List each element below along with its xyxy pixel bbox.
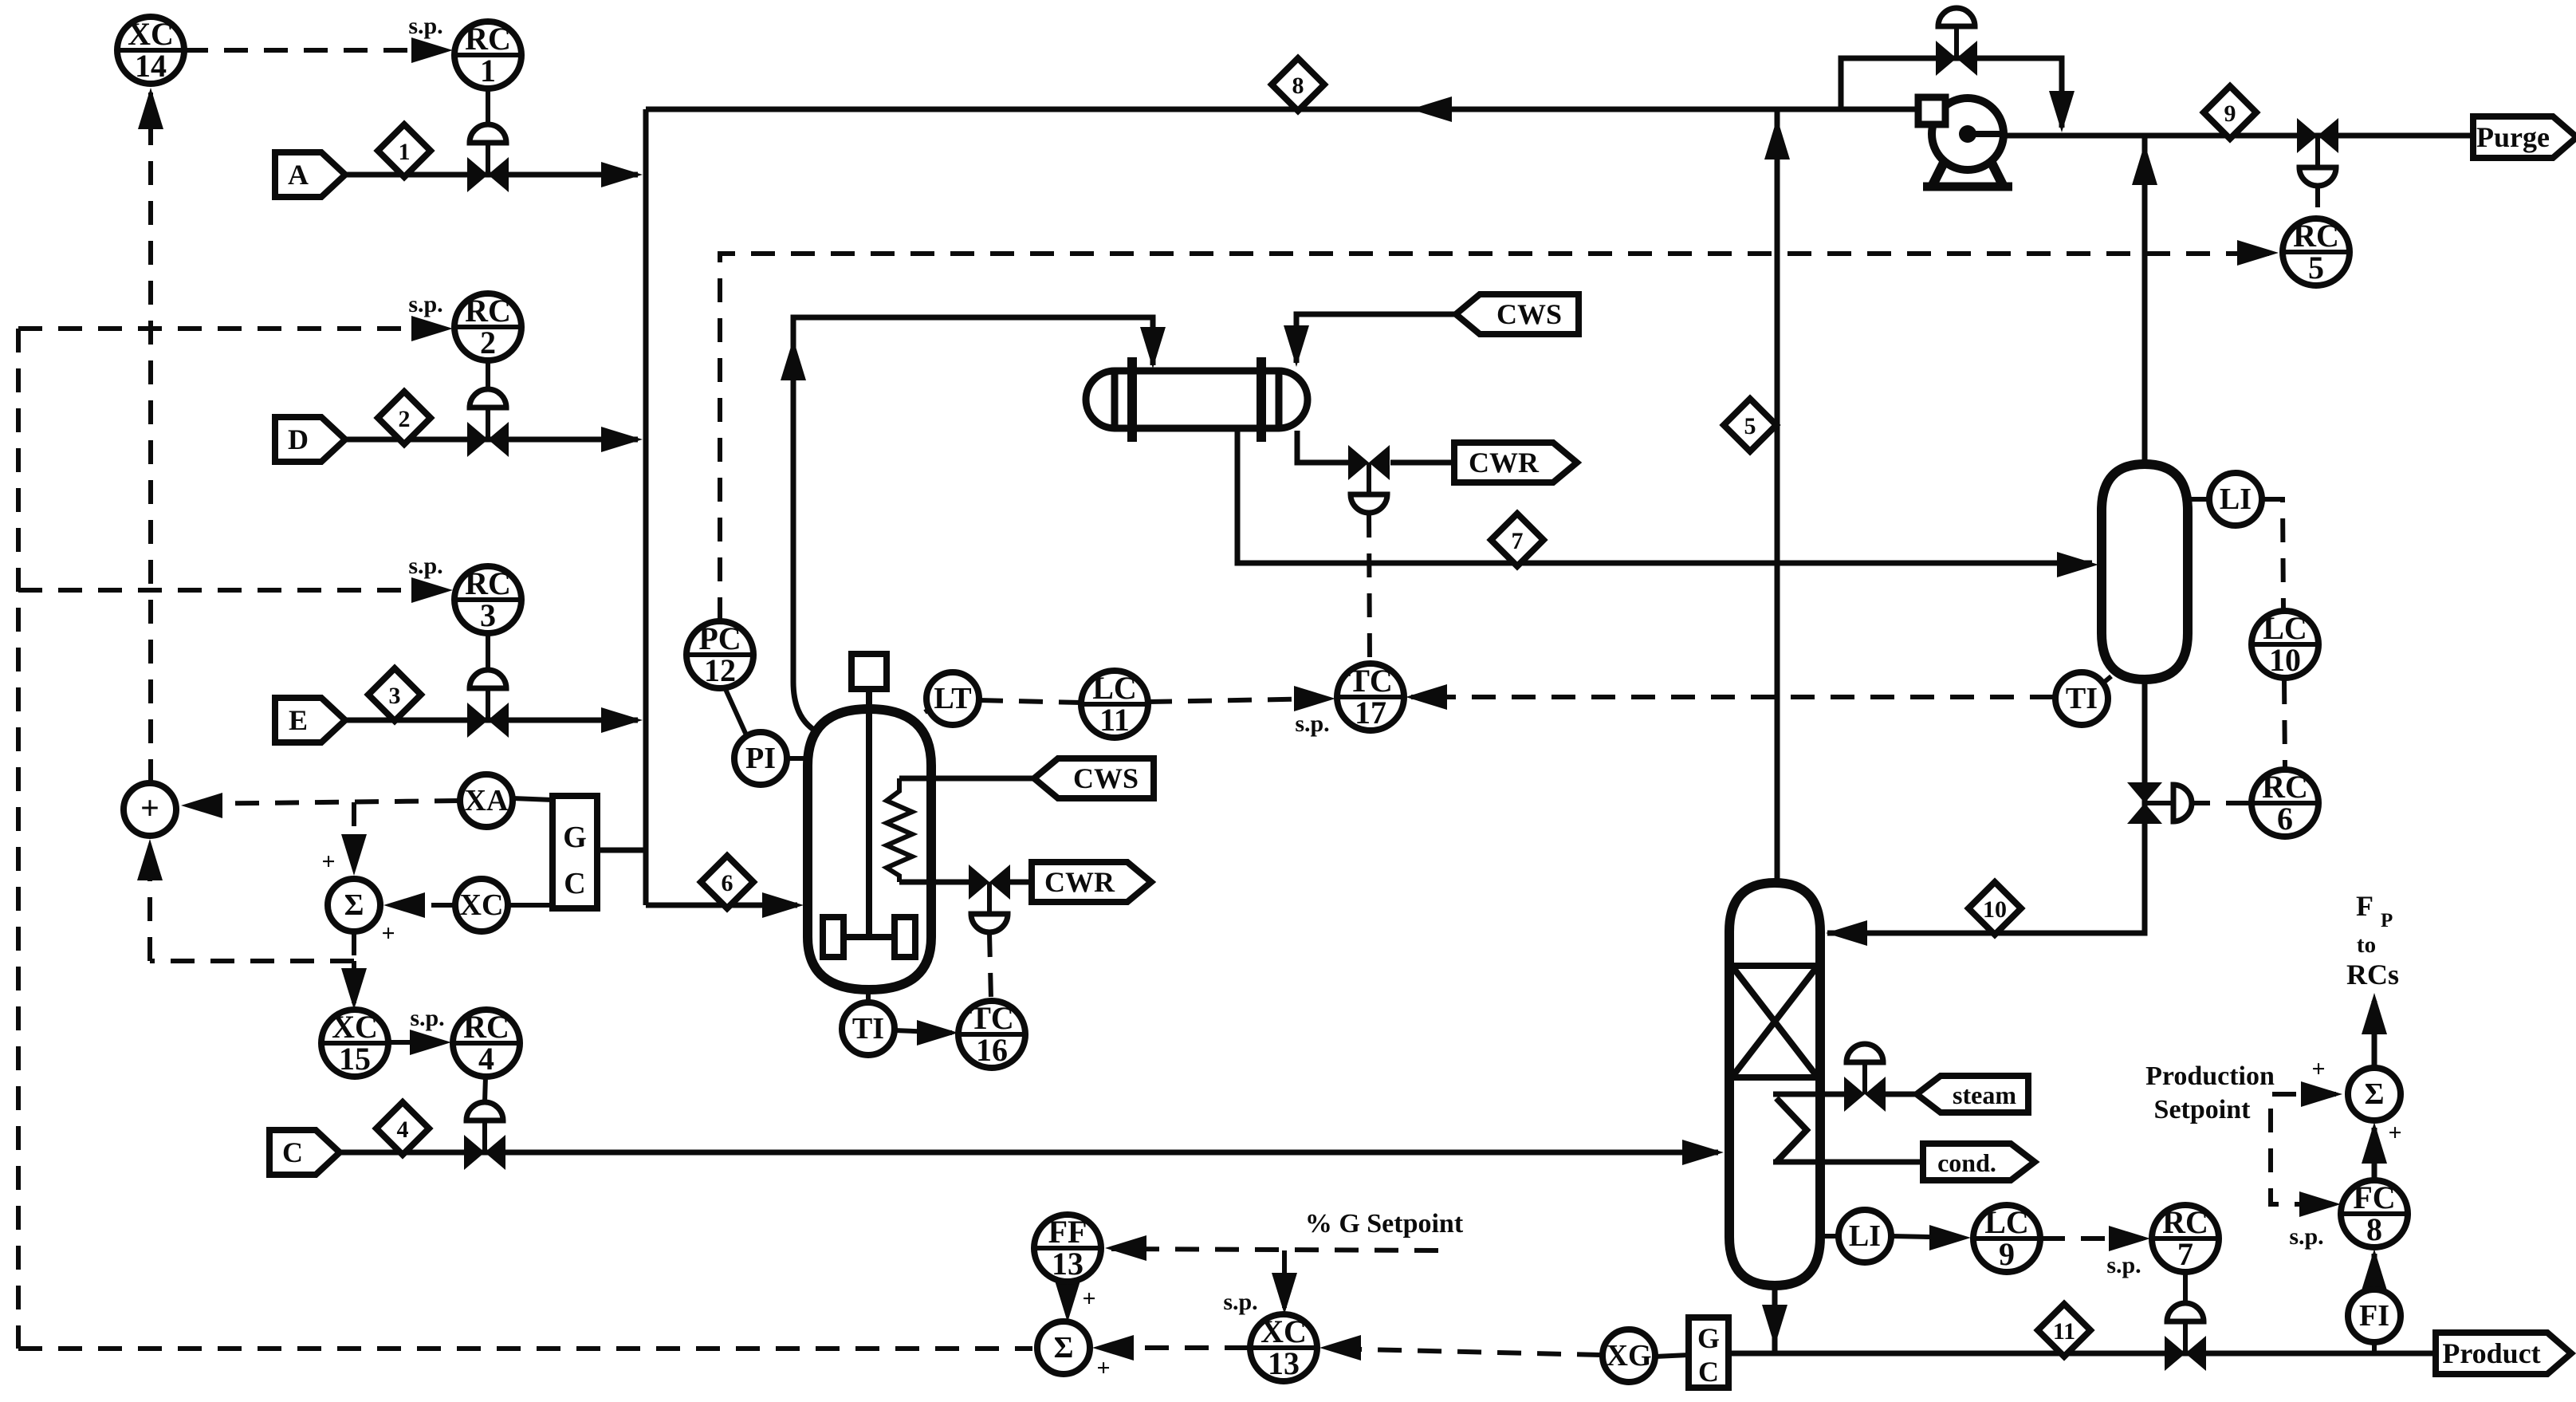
- svg-text:G: G: [1697, 1322, 1720, 1354]
- stream diamond 1: [378, 124, 431, 177]
- svg-text:13: 13: [1268, 1345, 1300, 1381]
- controller RC7: [2152, 1204, 2219, 1272]
- signal riser to XC14: [138, 88, 163, 783]
- svg-text:10: 10: [1983, 896, 2007, 923]
- controller XC13: [1250, 1313, 1317, 1381]
- svg-text:CWS: CWS: [1496, 298, 1562, 330]
- analyzer GC1 (feed): [553, 796, 597, 908]
- signal XC to sum: [381, 892, 455, 947]
- svg-text:14: 14: [135, 48, 167, 84]
- signal LC10 to RC6: [2284, 680, 2285, 767]
- stub stripper LI to LC9: [1893, 1225, 1971, 1250]
- signal XC14 to RC1: [184, 13, 453, 63]
- signal LC11 to TC17: [1148, 686, 1335, 737]
- svg-text:cond.: cond.: [1937, 1148, 1996, 1177]
- analyzer XG: [1603, 1329, 1655, 1382]
- marker CWS (reactor): [1034, 758, 1154, 798]
- stream diamond 3: [368, 668, 421, 721]
- reactor agitator motor: [851, 654, 887, 937]
- svg-text:LI: LI: [1849, 1219, 1881, 1253]
- svg-text:1: 1: [399, 139, 411, 165]
- indicator TI (separator): [2055, 672, 2108, 725]
- svg-text:RC: RC: [463, 1009, 509, 1045]
- controller RC2: [454, 293, 521, 360]
- summer sigma right: [2348, 1068, 2401, 1120]
- svg-text:8: 8: [2366, 1211, 2382, 1247]
- svg-text:5: 5: [1744, 413, 1756, 439]
- reactor cooling coil: [887, 778, 912, 882]
- svg-text:s.p.: s.p.: [1295, 711, 1329, 737]
- svg-text:XC: XC: [460, 888, 504, 922]
- svg-text:+: +: [321, 849, 335, 875]
- wire: reactor CWR after valve: [1009, 880, 1032, 885]
- signal purge valve to RC5: [2315, 183, 2320, 214]
- svg-text:s.p.: s.p.: [408, 553, 442, 579]
- signal FI to FC8: [2362, 1249, 2387, 1290]
- signal to RC3: [18, 553, 453, 603]
- svg-text:Production: Production: [2145, 1061, 2275, 1091]
- svg-text:2: 2: [480, 325, 496, 360]
- svg-text:6: 6: [722, 870, 733, 896]
- signal sep TI to TC17: [1406, 684, 2054, 710]
- marker CWR (condenser): [1454, 443, 1577, 482]
- svg-text:XC: XC: [332, 1009, 378, 1045]
- wire: feed C line to stripper: [333, 1140, 1724, 1165]
- summer plus circle: [124, 783, 176, 836]
- svg-text:PI: PI: [745, 742, 776, 775]
- valve V4 (C feed): [464, 1077, 505, 1170]
- svg-text:% G Setpoint: % G Setpoint: [1305, 1209, 1464, 1239]
- stripper packing: [1732, 966, 1818, 1077]
- indicator FI: [2348, 1290, 2401, 1342]
- svg-text:+: +: [2311, 1056, 2325, 1082]
- svg-text:XG: XG: [1607, 1339, 1652, 1372]
- wire: GC2 sample line: [1727, 1351, 1775, 1357]
- stub XG to GC2: [1655, 1355, 1689, 1357]
- feed marker D: [275, 417, 345, 462]
- wire: feed D line: [336, 427, 643, 452]
- signal LT to LC11: [979, 700, 1081, 703]
- signal sum output down: [352, 931, 356, 961]
- signal XG to XC13: [1319, 1335, 1601, 1361]
- svg-text:1: 1: [480, 53, 496, 89]
- marker Purge: [2473, 116, 2576, 158]
- stub reactor TI: [866, 990, 871, 1001]
- svg-text:12: 12: [704, 652, 736, 688]
- wire: cond line: [1773, 1160, 1923, 1165]
- svg-text:RC: RC: [2262, 769, 2308, 805]
- signal sep LI to LC10: [2262, 499, 2283, 610]
- stub stripper LI: [1820, 1234, 1837, 1239]
- signal condenser CWR valve to TC17: [1369, 514, 1370, 662]
- wire: stripper bottoms: [1762, 1286, 1787, 1353]
- controller RC4: [453, 1009, 520, 1077]
- signal XC13 to sum13: [1092, 1335, 1249, 1381]
- stub XC to GC1: [508, 903, 553, 908]
- svg-text:11: 11: [2053, 1318, 2075, 1345]
- svg-text:E: E: [289, 704, 308, 736]
- controller FC8: [2341, 1179, 2408, 1247]
- svg-text:RC: RC: [465, 21, 511, 57]
- label Fp to RCs: [2346, 890, 2399, 990]
- controller RC1: [454, 21, 521, 89]
- stripper reboiler coil: [1776, 1098, 1807, 1162]
- svg-text:+: +: [2388, 1120, 2401, 1146]
- svg-text:16: 16: [976, 1032, 1008, 1068]
- summer sigma left: [328, 879, 380, 931]
- svg-text:Product: Product: [2442, 1337, 2540, 1369]
- svg-text:Purge: Purge: [2476, 121, 2550, 153]
- reactor agitator impeller: [823, 917, 915, 957]
- controller LC10: [2252, 610, 2318, 678]
- signal branch to plus circle: [137, 839, 354, 961]
- svg-text:+: +: [140, 790, 159, 827]
- stub reactor TI to TC16: [895, 1020, 958, 1046]
- controller FF13: [1034, 1214, 1101, 1282]
- svg-text:Σ: Σ: [344, 888, 364, 922]
- svg-text:P: P: [2381, 910, 2393, 931]
- valve V2 (D feed): [467, 360, 509, 457]
- svg-text:PC: PC: [698, 620, 741, 656]
- svg-text:XA: XA: [465, 784, 509, 817]
- stub PC12 to PI: [725, 687, 748, 738]
- analyzer XC: [455, 879, 508, 931]
- svg-text:Setpoint: Setpoint: [2154, 1095, 2252, 1124]
- wire: separator liquid line stream 10: [1826, 679, 2145, 946]
- svg-text:RC: RC: [465, 565, 511, 601]
- stream diamond 5: [1724, 399, 1776, 451]
- stream diamond 4: [376, 1102, 429, 1155]
- recycle compressor: [1918, 97, 2012, 187]
- svg-text:+: +: [1096, 1355, 1110, 1381]
- stub XA to GC1: [513, 798, 553, 800]
- separator vessel: [2102, 464, 2188, 679]
- marker CWS (condenser): [1456, 294, 1579, 334]
- controller PC12: [686, 620, 753, 688]
- svg-text:A: A: [288, 159, 309, 191]
- marker steam: [1917, 1076, 2028, 1113]
- wire: feed E line: [336, 707, 643, 733]
- marker Product: [2436, 1333, 2571, 1374]
- summer sigma bottom: [1037, 1321, 1090, 1374]
- svg-text:5: 5: [2308, 250, 2324, 286]
- controller TC16: [958, 1000, 1025, 1068]
- stream diamond 2: [378, 392, 431, 444]
- valve bypass (compressor): [1936, 8, 1977, 76]
- svg-text:Σ: Σ: [2365, 1077, 2385, 1111]
- svg-text:CWS: CWS: [1073, 762, 1139, 794]
- wire: GC1 sample line: [597, 848, 646, 853]
- feed marker C: [269, 1130, 340, 1175]
- svg-text:RC: RC: [465, 293, 511, 329]
- wire: feed header vertical: [643, 109, 649, 905]
- svg-text:FF: FF: [1048, 1214, 1087, 1250]
- svg-text:s.p.: s.p.: [408, 13, 442, 39]
- signal FC8 to sum8: [2362, 1120, 2402, 1179]
- signal FF13 to sum13: [1055, 1281, 1096, 1322]
- svg-text:steam: steam: [1953, 1081, 2016, 1109]
- valve reactor CWR: [969, 864, 1010, 932]
- marker CWR (reactor): [1032, 862, 1151, 902]
- wire: separator overhead riser: [2132, 136, 2157, 464]
- svg-text:2: 2: [399, 406, 411, 432]
- svg-text:17: 17: [1355, 695, 1386, 731]
- svg-text:F: F: [2356, 890, 2373, 922]
- controller RC5: [2283, 218, 2350, 286]
- controller LC11: [1081, 670, 1148, 738]
- signal FI tap: [2372, 1344, 2377, 1353]
- wire: compressor bypass: [1841, 58, 2075, 132]
- svg-text:13: 13: [1052, 1246, 1083, 1282]
- svg-text:6: 6: [2277, 801, 2293, 837]
- stream diamond 7: [1491, 514, 1544, 566]
- stream diamond 8: [1272, 58, 1324, 111]
- wire: reactor CWR line: [899, 880, 969, 885]
- wire: feed A line: [336, 162, 643, 187]
- label production setpoint: [2145, 1061, 2275, 1124]
- svg-text:CWR: CWR: [1469, 447, 1540, 478]
- wire: steam line: [1773, 1092, 1917, 1097]
- signal to RC2: [18, 291, 453, 341]
- controller TC17: [1337, 663, 1404, 731]
- svg-text:to: to: [2357, 932, 2376, 958]
- valve separator bottoms: [2127, 782, 2192, 824]
- svg-text:D: D: [288, 423, 309, 455]
- wire: recycle line stream 8: [646, 96, 1920, 122]
- svg-text:LT: LT: [934, 682, 971, 715]
- signal RC6 to valve: [2194, 801, 2250, 805]
- controller RC6: [2252, 769, 2318, 837]
- signal PC12 to RC5: [720, 240, 2279, 621]
- wire: condenser outlet stream 7: [1237, 427, 2098, 577]
- stripper column: [1729, 883, 1820, 1286]
- svg-text:s.p.: s.p.: [410, 1005, 444, 1031]
- stub reactor LT: [925, 703, 939, 712]
- stream diamond 6: [701, 856, 753, 908]
- marker cond.: [1923, 1144, 2035, 1180]
- svg-text:9: 9: [1999, 1236, 2015, 1272]
- stub sep LI: [2188, 497, 2208, 502]
- svg-text:C: C: [1698, 1356, 1719, 1388]
- signal %G setpoint to XC13: [1223, 1250, 1297, 1315]
- svg-text:s.p.: s.p.: [2289, 1223, 2323, 1250]
- svg-text:TC: TC: [969, 1000, 1014, 1036]
- svg-text:LC: LC: [1092, 670, 1137, 706]
- controller LC9: [1973, 1204, 2040, 1272]
- signal left trunk vertical: [16, 329, 21, 1349]
- feed marker E: [275, 698, 345, 742]
- svg-text:8: 8: [1292, 73, 1304, 99]
- svg-text:LI: LI: [2220, 482, 2252, 516]
- controller XC14: [117, 16, 184, 84]
- controller XC15: [321, 1009, 388, 1077]
- svg-text:11: 11: [1099, 702, 1130, 738]
- wire: CWR line after valve: [1390, 460, 1454, 466]
- feed marker A: [275, 152, 345, 197]
- wire: reactor vapor to condenser: [781, 317, 1166, 734]
- svg-text:9: 9: [2224, 100, 2236, 127]
- signal to XC15: [341, 961, 367, 1010]
- svg-text:4: 4: [478, 1041, 494, 1077]
- stub sep TI: [2097, 676, 2111, 688]
- signal LC9 to RC7: [2041, 1226, 2150, 1278]
- signal bottom trunk to sum: [18, 1346, 1032, 1351]
- svg-text:s.p.: s.p.: [408, 291, 442, 317]
- stream diamond 9: [2204, 86, 2256, 139]
- valve V3 (E feed): [467, 633, 509, 738]
- svg-text:15: 15: [339, 1041, 371, 1077]
- reactor vessel: [808, 709, 931, 990]
- stream diamond 11: [2038, 1304, 2090, 1357]
- svg-text:FC: FC: [2353, 1179, 2395, 1215]
- svg-text:TI: TI: [852, 1012, 884, 1046]
- svg-text:+: +: [1082, 1286, 1095, 1312]
- signal %G setpoint to FF13: [1105, 1235, 1438, 1261]
- wire: condenser CWR outlet: [1297, 431, 1349, 463]
- svg-text:G: G: [563, 821, 587, 854]
- svg-text:LC: LC: [1984, 1204, 2029, 1240]
- wire: stream 6 to reactor: [646, 892, 804, 918]
- svg-text:CWR: CWR: [1044, 866, 1115, 898]
- signal production setpoint bracket: [2271, 1056, 2342, 1250]
- svg-text:C: C: [282, 1136, 303, 1168]
- svg-text:s.p.: s.p.: [1223, 1289, 1257, 1315]
- signal sum8 to RCs: [2362, 993, 2387, 1066]
- svg-text:s.p.: s.p.: [2106, 1252, 2141, 1278]
- valve steam: [1844, 1044, 1886, 1112]
- svg-text:10: 10: [2269, 642, 2301, 678]
- stub reactor PI: [787, 756, 808, 761]
- analyzer GC2 (product): [1689, 1317, 1728, 1388]
- svg-text:RC: RC: [2162, 1204, 2208, 1240]
- svg-text:RC: RC: [2293, 218, 2339, 254]
- valve product: [2165, 1272, 2206, 1371]
- svg-text:FI: FI: [2359, 1299, 2389, 1333]
- label %G setpoint: [1305, 1209, 1464, 1239]
- svg-text:XC: XC: [128, 16, 174, 52]
- wire: product line: [1775, 1351, 2436, 1357]
- controller RC3: [454, 565, 521, 633]
- svg-text:TI: TI: [2066, 682, 2098, 715]
- signal reactor CWR valve to TC16: [989, 933, 991, 998]
- transmitter LT: [926, 672, 979, 725]
- svg-text:3: 3: [389, 683, 401, 709]
- stream diamond 10: [1968, 882, 2021, 935]
- svg-text:C: C: [564, 867, 585, 900]
- valve V1 (A feed): [467, 89, 509, 192]
- analyzer XA: [460, 774, 513, 827]
- indicator LI (separator): [2209, 473, 2262, 526]
- wire: compressor discharge to purge: [2001, 133, 2473, 139]
- svg-text:TC: TC: [1348, 663, 1393, 699]
- svg-text:LC: LC: [2263, 610, 2307, 646]
- svg-text:7: 7: [2177, 1236, 2193, 1272]
- svg-text:4: 4: [397, 1116, 409, 1143]
- signal XA to plus: [181, 793, 458, 818]
- signal XC15 to RC4: [388, 1005, 451, 1055]
- indicator TI (reactor): [842, 1002, 895, 1055]
- valve condenser CWR: [1348, 445, 1390, 513]
- svg-text:RCs: RCs: [2346, 959, 2399, 990]
- wire: CWS to condenser: [1284, 314, 1454, 367]
- valve purge: [2297, 118, 2338, 186]
- indicator LI (stripper): [1839, 1210, 1891, 1262]
- wire: stripper overhead stream 5: [1764, 109, 1790, 883]
- wire: reactor CWS line: [899, 776, 1034, 782]
- svg-text:XC: XC: [1260, 1313, 1307, 1349]
- indicator PI: [734, 732, 787, 785]
- signal XA branch to sum: [321, 802, 367, 876]
- svg-text:3: 3: [480, 597, 496, 633]
- svg-text:+: +: [381, 920, 395, 947]
- condenser heat exchanger: [1086, 357, 1308, 442]
- svg-text:Σ: Σ: [1054, 1331, 1074, 1365]
- svg-text:7: 7: [1512, 528, 1524, 554]
